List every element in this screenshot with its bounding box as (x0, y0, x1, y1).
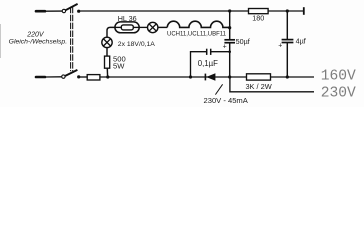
node A (top switch output) (77, 10, 80, 13)
node J (0,1uF top right corner) (228, 50, 231, 53)
svg-text:180: 180 (252, 14, 264, 23)
svg-text:0,1µF: 0,1µF (198, 59, 218, 68)
node B (top rail / main vertical) (228, 9, 231, 12)
wire 4uf vertical upper (286, 11, 288, 39)
resistor R2 (unlabeled) (87, 75, 100, 80)
svg-text:5W: 5W (113, 62, 125, 71)
wire (79, 76, 88, 78)
node H (4uf bottom / 160V rail) (286, 75, 289, 78)
node D (bottom switch output) (77, 75, 80, 78)
capacitor 4uf (282, 40, 294, 43)
svg-text:3K / 2W: 3K / 2W (245, 82, 271, 91)
svg-text:50µf: 50µf (236, 37, 250, 46)
resistor 180 (249, 9, 269, 14)
wire (211, 51, 230, 53)
capacitor 50uf (224, 40, 235, 43)
switch S1a pivot (62, 9, 65, 12)
svg-text:230V: 230V (321, 86, 356, 102)
resistor 3K/2W (247, 74, 271, 80)
switch S1b blade (65, 70, 77, 76)
svg-text:230V - 45mA: 230V - 45mA (204, 96, 249, 105)
switch S1b pivot (62, 75, 65, 78)
svg-text:2x 18V/0,1A: 2x 18V/0,1A (118, 41, 155, 48)
diode D1 (205, 73, 215, 81)
node I (coil / main vertical) (228, 26, 231, 29)
lamp HL36 filament block (121, 25, 133, 30)
svg-text:HL 36: HL 36 (118, 14, 137, 23)
wire 4uf vertical lower (286, 43, 288, 78)
wire main vertical upper (229, 11, 231, 39)
capacitor 0,1uF (207, 49, 211, 55)
wire top rail (79, 10, 249, 12)
svg-text:220V: 220V (26, 31, 45, 38)
wire inside tube right (133, 26, 139, 28)
node F (0,1uF left leg / bottom rail) (189, 75, 192, 78)
input terminal pin top (36, 10, 45, 13)
svg-text:+: + (223, 43, 227, 50)
wire bottom rail (100, 76, 247, 78)
switch mechanical link (dashed) (70, 7, 72, 72)
resistor 500 5W (105, 56, 110, 68)
wire (45, 10, 62, 12)
leader line to diode (215, 84, 222, 94)
lamp E2 (circle cross) (102, 37, 112, 47)
wire (158, 26, 167, 28)
node C (top rail / 4uf vertical) (286, 9, 289, 12)
inductor L1 (filament choke) (167, 21, 229, 27)
input terminal pin bottom (36, 76, 45, 79)
svg-text:Gleich-/Wechselsp.: Gleich-/Wechselsp. (9, 39, 68, 46)
wire (106, 48, 108, 57)
terminal bar top right (303, 7, 305, 15)
wire (271, 76, 315, 78)
wire (106, 68, 108, 77)
wire branch corner to tube (107, 27, 115, 37)
switch S1a blade (66, 4, 78, 10)
wire 230V tap (230, 77, 314, 92)
wire main vertical lower (229, 43, 231, 77)
svg-text:160V: 160V (321, 69, 356, 85)
svg-text:UCH11,UCL11,UBF11: UCH11,UCL11,UBF11 (167, 31, 227, 37)
wire inside tube left (116, 26, 122, 28)
wire (45, 76, 62, 78)
node G (diode / main vertical / 230V tap) (228, 75, 231, 78)
lamp E1 (circle cross) (148, 22, 158, 32)
svg-text:+: + (278, 42, 282, 49)
svg-text:4µf: 4µf (296, 36, 306, 45)
node E (500 ohm branch / bottom rail) (106, 75, 109, 78)
wire 0,1uF left leg (191, 52, 207, 77)
wire (268, 10, 304, 12)
wire (139, 26, 147, 28)
lamp HL36 tube outer (115, 22, 139, 33)
